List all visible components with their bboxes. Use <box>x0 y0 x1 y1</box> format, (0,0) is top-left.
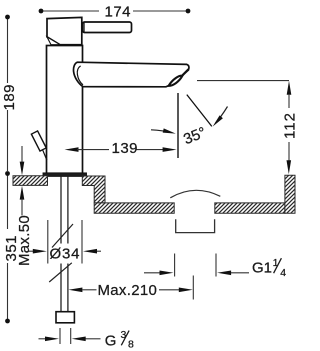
svg-text:Max.210: Max.210 <box>98 282 158 299</box>
cap lower wedge <box>47 37 60 45</box>
svg-text:Ø34: Ø34 <box>50 245 81 262</box>
dimension diameter 34 <box>29 220 102 264</box>
svg-text:189: 189 <box>1 84 18 111</box>
base plate <box>43 173 87 177</box>
svg-text:112: 112 <box>282 112 299 139</box>
svg-text:4: 4 <box>280 267 286 279</box>
svg-text:8: 8 <box>128 338 134 350</box>
faucet body column <box>47 46 83 174</box>
aerator <box>169 69 189 86</box>
basin floor left of drain <box>94 203 174 213</box>
dimension G 1 1/4 <box>144 254 286 279</box>
svg-text:Max.50: Max.50 <box>16 215 33 266</box>
basin floor right of drain <box>215 203 285 213</box>
svg-text:G1: G1 <box>252 260 272 277</box>
dimension 174 <box>39 3 191 20</box>
water stream reference line <box>177 93 179 158</box>
drain waste lid arc <box>170 190 220 197</box>
svg-text:3: 3 <box>121 329 127 341</box>
pop-up waste rod <box>31 131 46 160</box>
svg-text:1: 1 <box>273 257 279 269</box>
dimension Max.210 <box>68 276 193 300</box>
svg-text:139: 139 <box>112 140 139 157</box>
basin right wall <box>285 175 295 213</box>
cartridge cap <box>47 17 82 44</box>
dimension G 3/8 <box>39 328 135 350</box>
spout <box>74 62 189 87</box>
supply pipe <box>61 177 68 312</box>
35 degree stream line <box>187 95 212 127</box>
dimension 189 and 351 line <box>1 15 20 324</box>
dimension 112 <box>197 81 299 175</box>
lever handle bar <box>83 22 132 33</box>
svg-text:G: G <box>105 333 117 350</box>
35 degree leader arrows <box>151 107 228 134</box>
35 degree label <box>181 124 208 148</box>
hose diagonal marks <box>49 224 73 282</box>
spout inner curve <box>77 66 83 85</box>
dimension Max.50 <box>16 146 33 266</box>
countertop right section and basin left wall <box>82 176 105 203</box>
svg-text:174: 174 <box>105 3 132 20</box>
dimension 139 <box>65 140 177 157</box>
countertop left section <box>13 176 48 186</box>
drain tailpiece <box>176 219 215 232</box>
hose connector box <box>56 312 74 323</box>
